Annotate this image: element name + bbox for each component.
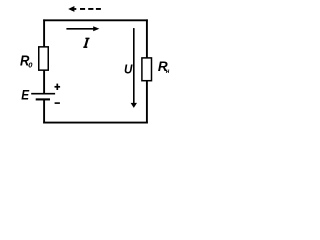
wire left lower <box>43 100 45 124</box>
wire left middle <box>43 71 45 94</box>
label Rn <box>158 59 170 75</box>
wire right lower <box>146 81 148 124</box>
battery minus sign <box>55 102 60 104</box>
dashed arrow (flow direction, top) <box>68 6 101 12</box>
current arrow I <box>66 26 99 31</box>
wire right upper <box>146 19 148 58</box>
resistor R0 <box>39 47 49 70</box>
wire bottom <box>43 122 148 124</box>
wire left upper <box>43 19 45 46</box>
svg-text:E: E <box>21 87 29 103</box>
battery plus sign <box>55 84 61 90</box>
resistor Rn <box>142 58 152 81</box>
battery E : short negative plate <box>36 98 50 100</box>
voltage arrow U <box>131 28 137 108</box>
label R0 <box>20 53 33 70</box>
svg-text:U: U <box>124 61 133 76</box>
svg-text:н: н <box>166 69 170 75</box>
label I <box>83 38 89 47</box>
battery E : long positive plate <box>31 93 55 95</box>
wire top <box>43 19 148 21</box>
